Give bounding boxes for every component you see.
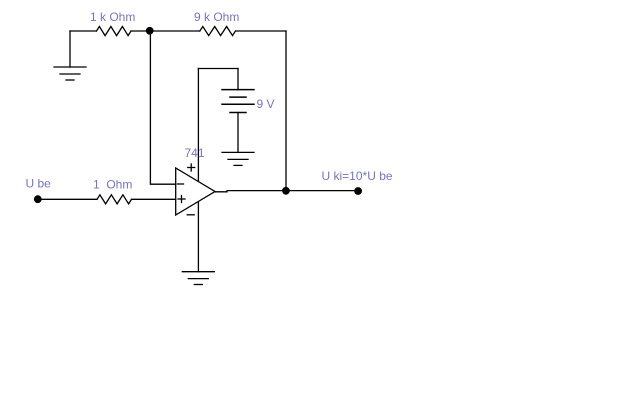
wire inverting feed: vertical from junction then to op-amp: [150, 31, 175, 184]
svg-text:1 k Ohm: 1 k Ohm: [90, 10, 135, 24]
resistor 1 k Ohm (top): [97, 27, 132, 36]
battery 9 V: [222, 90, 254, 113]
op-amp U1 741 triangle: [176, 168, 215, 215]
svg-text:1 Ohm: 1 Ohm: [93, 178, 132, 192]
svg-text:741: 741: [185, 146, 205, 160]
wire top-right horizontal: [236, 30, 287, 32]
wire op-amp output: [215, 191, 358, 192]
wire op-amp V- to ground: [197, 202, 199, 272]
resistor 1 Ohm (input): [97, 195, 132, 204]
node output junction dot: [282, 187, 290, 195]
ground (left, below 1 k Ohm resistor): [54, 67, 86, 80]
terminal U be input dot: [34, 195, 42, 203]
wire top-left horizontal: [70, 30, 97, 32]
op-amp V+ plus mark: [188, 164, 195, 171]
wire between resistors: [131, 30, 200, 32]
wire battery positive stub: [237, 69, 239, 90]
wire battery negative to ground: [237, 113, 239, 153]
wire input to 1 Ohm resistor: [41, 198, 97, 200]
wire battery loop left vertical to op-amp V+: [197, 69, 199, 182]
ground (battery): [222, 152, 254, 165]
op-amp V- minus mark: [187, 214, 194, 216]
svg-text:9 k Ohm: 9 k Ohm: [194, 10, 239, 24]
wire battery loop top horizontal: [198, 68, 238, 70]
svg-text:9 V: 9 V: [257, 97, 275, 111]
terminal U ki output dot: [354, 187, 362, 195]
op-amp non-inverting input plus mark: [178, 196, 185, 203]
node junction dot (top): [146, 27, 154, 35]
op-amp inverting input minus mark: [178, 183, 184, 185]
svg-text:U ki=10*U be: U ki=10*U be: [322, 169, 393, 183]
wire right vertical (feedback down): [285, 31, 287, 191]
resistor 9 k Ohm (feedback): [200, 27, 236, 36]
svg-text:U be: U be: [26, 177, 52, 191]
wire left vertical to ground: [69, 31, 71, 67]
wire 1 Ohm resistor to op-amp: [132, 198, 176, 200]
ground (op-amp negative supply): [182, 272, 214, 285]
